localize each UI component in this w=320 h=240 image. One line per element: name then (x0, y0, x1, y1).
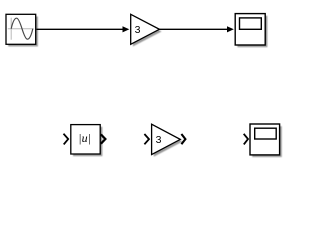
sine icon vertical axis (10, 18, 12, 40)
scope S2 shadow (252, 126, 282, 157)
scope S2 screen (255, 128, 277, 139)
scope S1 body (235, 14, 265, 45)
svg-text:|u|: |u| (78, 131, 91, 145)
scope S1 screen (240, 18, 262, 29)
gain G2 input port chevron (144, 134, 149, 144)
sine icon horizontal axis (8, 28, 34, 30)
gain G2 triangle (152, 124, 181, 154)
sine icon curve (11, 18, 33, 39)
abs input port chevron (64, 134, 69, 145)
abs block body (71, 125, 100, 154)
wire arrowhead into gain G1 (123, 26, 130, 32)
svg-text:3: 3 (156, 134, 162, 146)
abs output port chevron (101, 134, 106, 143)
wire arrowhead into scope S1 (227, 26, 234, 32)
wire from sine to gain G1 (37, 28, 124, 30)
gain G1 triangle (131, 14, 160, 44)
gain G1 shadow (133, 17, 162, 47)
scope S2 body (250, 124, 280, 155)
sine wave source block shadow (8, 17, 38, 47)
sine wave source block body (6, 14, 36, 44)
svg-text:3: 3 (135, 24, 141, 36)
abs block shadow (73, 127, 102, 156)
scope S1 shadow (237, 16, 267, 47)
scope S2 input port chevron (244, 134, 248, 145)
wire from gain G1 to scope S1 (159, 28, 227, 30)
gain G2 shadow (154, 126, 183, 156)
gain G2 output port chevron (181, 134, 185, 144)
